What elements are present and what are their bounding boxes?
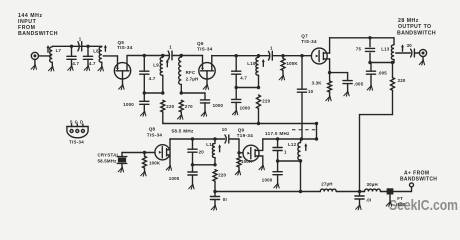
ground (under crystal) (118, 167, 123, 172)
svg-text:30: 30 (407, 43, 413, 48)
capacitor 20 (oscillator tank) (188, 139, 197, 165)
svg-text:2.7µH: 2.7µH (186, 76, 199, 81)
svg-text:T19-34: T19-34 (237, 133, 254, 138)
svg-text:1000: 1000 (213, 103, 224, 108)
feedthrough capacitor FT 1500 (387, 189, 392, 202)
wire coupling cap to Q9 gate (229, 139, 243, 153)
svg-text:Q9: Q9 (238, 127, 245, 132)
svg-text:L11: L11 (206, 142, 214, 147)
svg-text:220: 220 (218, 172, 226, 177)
ground (under right 4.7 cap) (84, 66, 89, 71)
transistor Q5 TIS-34 (114, 56, 130, 85)
capacitor .01 (B+ line bypass) (355, 192, 364, 205)
inductor L12 (298, 139, 301, 161)
ground (under oscillator 1000 cap) (189, 184, 194, 189)
capacitor 1 (series Q6-Q7 coupling) (269, 51, 273, 60)
resistor 220 (Q5 stage) (161, 100, 165, 123)
svg-text:4.7: 4.7 (72, 61, 79, 66)
node junction (L10 tank node left) (235, 86, 238, 89)
svg-text:RFC: RFC (186, 70, 196, 75)
ground (under oscillator .01) (211, 205, 216, 210)
node junction (B+ rail at osc feed) (213, 190, 216, 193)
node junction (L11 top) (213, 137, 216, 140)
svg-text:TIS-34: TIS-34 (301, 39, 317, 44)
wire 58.5 MHz oscillator rail (170, 138, 224, 140)
svg-text:20: 20 (199, 150, 205, 155)
wire Q9 drain riser (262, 139, 264, 150)
svg-text:BANDSWITCH: BANDSWITCH (397, 31, 436, 37)
node junction (tank bottom left) (368, 61, 371, 64)
transistor Q7 TIS-34 (311, 48, 329, 64)
node junction (tank node right) (161, 91, 164, 94)
node junction (Q7 source node) (328, 71, 331, 74)
capacitor .005 (output tank left bypass) (370, 63, 372, 72)
wire 117 MHz rail (263, 138, 317, 140)
net label 144 MHz input text (18, 13, 58, 37)
svg-text:220: 220 (262, 99, 270, 104)
inductor L10 (256, 56, 259, 88)
svg-text:.005: .005 (378, 70, 388, 75)
node junction (osc tank bottom left) (191, 163, 194, 166)
ground (under 1000 cap Q6 stage) (232, 110, 237, 115)
wire 117 tank bottom node (278, 160, 301, 162)
svg-text:Q7: Q7 (301, 33, 308, 38)
transistor Q9 T19-34 (243, 145, 263, 161)
dashed shield line (292, 129, 319, 131)
tuning arrow of L9 (166, 59, 169, 67)
svg-text:58.5 MHz: 58.5 MHz (172, 129, 194, 134)
node junction (bias rail at 220 Q6) (257, 122, 260, 125)
node junction (RFC bottom) (180, 91, 183, 94)
svg-text:OUTPUT TO: OUTPUT TO (398, 24, 431, 30)
capacitor 30 (series output) (411, 49, 415, 57)
ground (under 3.3K) (326, 96, 331, 101)
wire Q7 source dropper (329, 59, 331, 73)
inductor L11 (212, 139, 215, 165)
capacitor 10 (series Q8-Q9 coupling) (225, 135, 229, 143)
wire L9 tank bottom node (144, 92, 163, 94)
transistor Q8 TIS-34 (155, 145, 170, 160)
svg-text:L10: L10 (247, 61, 256, 66)
svg-text:.0I: .0I (366, 198, 371, 203)
svg-text:10: 10 (222, 127, 228, 132)
svg-text:75: 75 (356, 46, 362, 51)
svg-text:Q8: Q8 (149, 127, 156, 132)
wire input connector to L7 (39, 55, 52, 57)
wire bias rail drop to 117 rail (316, 124, 318, 140)
node junction (osc tank bottom right) (213, 163, 216, 166)
transistor pinout diagram TIS-34 (S G D) (67, 124, 88, 138)
wire L8 tap to Q5 gate (103, 55, 117, 57)
capacitor .005 (Q7 source bypass) (343, 81, 352, 92)
wire B+ riser to output stage feed (360, 115, 393, 192)
ground (under Q7 source .005) (344, 91, 349, 96)
inductor L7 (50, 47, 53, 67)
node junction filter rail right (86, 45, 89, 48)
wire L13 tap to 30 cap (396, 52, 411, 54)
svg-text:BANDSWITCH: BANDSWITCH (18, 31, 58, 37)
wire RFC node to 1000 cap (181, 93, 205, 100)
node junction (L12 top / injection column) (300, 137, 303, 140)
svg-text:58.5MHz: 58.5MHz (98, 158, 118, 163)
svg-text:TIS-34: TIS-34 (147, 132, 163, 137)
wire input filter rail (52, 45, 102, 47)
ground (under 1000 cap Q5 stage) (141, 111, 146, 116)
output connector (28 MHz) (419, 49, 426, 60)
wire Q6 drain rail (212, 55, 312, 57)
ground (under output connector) (419, 60, 424, 65)
svg-text:.005: .005 (354, 82, 364, 87)
svg-text:1000: 1000 (262, 178, 273, 183)
wire Q5 drain rail (127, 55, 203, 57)
capacitor 1 (series Q5-Q6 coupling) (168, 51, 172, 60)
wire 30 cap to output connector (415, 52, 420, 54)
svg-text:TIS-34: TIS-34 (197, 47, 213, 52)
inductor L13 (391, 38, 394, 63)
ground (under left 4.7 cap) (68, 66, 73, 71)
svg-text:220: 220 (398, 78, 406, 83)
capacitor 1000 (Q6 stage bypass) (232, 88, 241, 111)
wire output tank bottom node (370, 62, 393, 64)
wire Q7 drain riser and top rail (330, 38, 394, 53)
capacitor 4.7 (input filter right) (83, 46, 92, 66)
capacitor .01 (oscillator B+ bypass) (210, 192, 219, 206)
svg-text:100K: 100K (287, 61, 299, 66)
resistor 100K (Q9 gate) (237, 153, 241, 170)
ground (under RFC bypass cap) (201, 112, 206, 117)
resistor 220 (output stage feed) (391, 63, 395, 115)
svg-text:L12: L12 (288, 142, 297, 147)
svg-text:30µH: 30µH (367, 182, 378, 187)
wire Q8 source dropper (169, 155, 171, 166)
capacitor 1000 (RFC bypass) (200, 100, 209, 112)
tuning arrow of L12 (304, 143, 307, 150)
svg-text:220: 220 (166, 104, 174, 109)
resistor 100K (Q8 gate) (143, 153, 147, 172)
svg-text:27µH: 27µH (321, 182, 332, 187)
A+ terminal (410, 183, 414, 187)
node junction (117 tank bottom left) (276, 159, 279, 162)
node junction (bias rail right end) (315, 122, 318, 125)
svg-text:CRYSTAL: CRYSTAL (98, 153, 120, 158)
svg-text:100K: 100K (149, 161, 161, 166)
node junction (B+ rail at L12) (299, 190, 302, 193)
input connector J1 (144 MHz) (31, 52, 38, 65)
node junction (75 cap top) (368, 36, 371, 39)
ground (Q9 source) (259, 165, 264, 170)
ground (under B+ line .01) (356, 205, 361, 210)
node junction filter rail left (70, 45, 73, 48)
svg-text:3.3K: 3.3K (312, 80, 323, 85)
ground (Q6 source) (203, 85, 208, 90)
node junction (4.7 cap at Q5 drain) (143, 54, 146, 57)
svg-text:FT: FT (397, 196, 403, 201)
node junction (20 cap top) (191, 137, 194, 140)
capacitor 10 (injection coupling into Q7 gate) (297, 56, 306, 139)
svg-text:I500: I500 (396, 202, 406, 207)
node junction (10 cap column) (300, 54, 303, 57)
svg-text:L8: L8 (93, 48, 99, 53)
svg-text:BANDSWITCH: BANDSWITCH (400, 177, 437, 183)
svg-text:TIS-34: TIS-34 (117, 45, 133, 50)
svg-text:1: 1 (284, 149, 287, 154)
crystal Y1 58.5 MHz (117, 153, 127, 168)
node junction (1 cap top) (276, 137, 279, 140)
capacitor 1000 (Q5 stage bypass) (140, 93, 149, 111)
wire L10 tank bottom node (236, 87, 258, 89)
net label A+ from bandswitch text (400, 171, 437, 183)
resistor 220 (Q6 stage) (257, 95, 261, 124)
tuning arrow of L7 (47, 45, 50, 52)
svg-text:1000: 1000 (169, 176, 180, 181)
inductor L9 (160, 56, 163, 94)
ground (under L7) (49, 66, 54, 71)
resistor 270 (179, 100, 183, 114)
wire Q7 source to .005 bypass (330, 73, 348, 81)
ground (under Q9 100K) (235, 170, 240, 175)
wire bias rail 123.5 (163, 123, 317, 125)
capacitor 1000 (oscillator bypass) (188, 165, 197, 185)
ground (under feedthrough) (386, 202, 391, 207)
node junction (117 tank bottom right) (299, 159, 302, 162)
svg-text:L7: L7 (56, 48, 62, 53)
svg-text:1: 1 (79, 37, 82, 42)
ground (under .005 left) (367, 86, 372, 91)
svg-text:TIS-34: TIS-34 (69, 140, 84, 145)
svg-text:0I: 0I (223, 197, 227, 202)
svg-text:117.0 MHz: 117.0 MHz (265, 131, 290, 136)
svg-text:1: 1 (270, 45, 273, 50)
ground (under Q7 gate 100K) (279, 75, 284, 80)
wire B+ bottom rail (215, 191, 363, 193)
svg-text:1: 1 (169, 44, 172, 49)
resistor 3.3K (Q7 source) (328, 73, 332, 97)
node junction (L10 tank node right) (257, 86, 260, 89)
wire feedthrough to A+ terminal (393, 187, 412, 192)
node junction (L9 top) (161, 54, 164, 57)
wire Q8 drain riser (169, 139, 171, 150)
capacitor 1000 (117 stage bypass) (273, 161, 282, 183)
svg-text:L13: L13 (381, 47, 390, 52)
svg-text:L9: L9 (153, 63, 159, 68)
wire oscillator rail to coupling cap (223, 138, 225, 140)
ground (Q5 source) (119, 85, 124, 90)
capacitor 4.7 (Q6 drain) (232, 56, 241, 88)
wire Q9 source dropper (262, 156, 264, 165)
node junction (100K at Q7 gate) (281, 54, 284, 57)
node junction (Q9 gate bias) (237, 151, 240, 154)
node junction (tank node left) (143, 91, 146, 94)
capacitor 75 (365, 38, 374, 63)
node junction (RFC top) (180, 54, 183, 57)
svg-text:4.7: 4.7 (149, 76, 156, 81)
node junction (117 rail to bias rail) (315, 137, 318, 140)
capacitor 1 (series, input filter) (78, 42, 82, 51)
svg-text:1000: 1000 (240, 105, 251, 110)
resistor 220 (oscillator feed) (213, 170, 217, 192)
svg-text:10: 10 (308, 89, 314, 94)
tuning arrow of L13 (401, 44, 404, 51)
node junction (B+ rail at .01) (358, 190, 361, 193)
net label 28 MHz output text (397, 18, 436, 37)
inductor RFC 2.7uH (179, 56, 182, 94)
wire L12 bottom to B+ rail (300, 161, 302, 192)
svg-text:Q6: Q6 (197, 41, 204, 46)
ground (under L8) (98, 66, 103, 71)
transistor Q6 TIS-34 (199, 56, 215, 85)
svg-text:270: 270 (185, 104, 193, 109)
inductor L8 (99, 47, 102, 67)
ground (under 117 stage 1000 cap) (274, 183, 279, 188)
tuning arrow of L8 (104, 45, 107, 52)
inductor 30uH (363, 189, 387, 191)
inductor 27uH (320, 189, 336, 191)
ground (under 270 resistor) (178, 115, 183, 120)
ground (Q8 source) (166, 166, 171, 171)
capacitor 4.7 (input filter left) (67, 46, 76, 66)
wire oscillator tank bottom node (193, 164, 216, 166)
wire crystal to Q8 gate (122, 152, 155, 154)
resistor 100K (Q7 gate) (281, 56, 285, 76)
tuning arrow of L11 (218, 144, 221, 152)
node junction (4.7 cap at Q6 drain) (235, 54, 238, 57)
node junction (tank bottom right) (391, 61, 394, 64)
node junction (Q8 gate bias) (143, 151, 146, 154)
capacitor 4.7 (Q5 drain) (140, 56, 149, 94)
svg-text:1000: 1000 (123, 102, 134, 107)
svg-text:4.7: 4.7 (240, 76, 247, 81)
ground (under Q8 100K) (141, 171, 146, 176)
tuning arrow of L10 (262, 59, 265, 67)
ground (under input connector) (31, 65, 36, 70)
capacitor 1 (117 MHz tank) (273, 139, 282, 161)
node junction (L10 top) (257, 54, 260, 57)
svg-text:S G D: S G D (70, 119, 84, 124)
svg-text:4.7: 4.7 (89, 61, 96, 66)
